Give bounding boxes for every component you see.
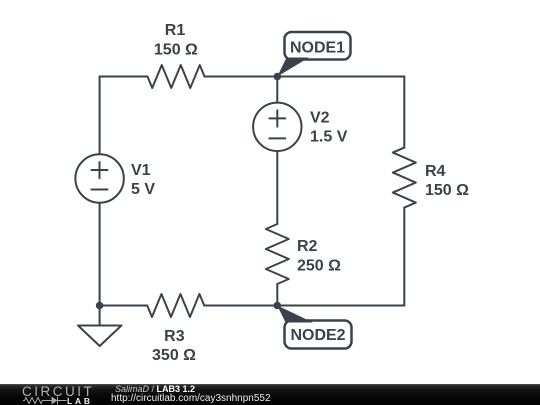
credit line author/title bbox=[115, 385, 195, 394]
svg-text:150 Ω: 150 Ω bbox=[154, 41, 198, 58]
svg-text:NODE2: NODE2 bbox=[290, 327, 345, 344]
wire right vertical top bbox=[403, 77, 405, 148]
wire left vertical bottom (V1 minus to bottom rail) bbox=[99, 204, 101, 306]
svg-text:V2: V2 bbox=[310, 109, 330, 126]
svg-text:NODE1: NODE1 bbox=[290, 39, 345, 56]
junction dot node A (top, NODE1) bbox=[274, 73, 282, 81]
resistor R1 bbox=[148, 65, 205, 88]
V1 minus sign bbox=[92, 189, 108, 191]
junction dot node B (bottom, NODE2) bbox=[274, 302, 282, 310]
wire right vertical bottom bbox=[403, 208, 405, 306]
node NODE1 flag bbox=[277, 32, 350, 77]
voltage source V2 circle bbox=[253, 103, 301, 151]
wire bottom rail right segment bbox=[204, 305, 404, 307]
ground wire stub bbox=[99, 306, 101, 326]
wire left vertical top (V1 plus to top rail) bbox=[99, 77, 101, 154]
svg-text:R2: R2 bbox=[297, 238, 318, 255]
credit line url bbox=[111, 394, 271, 404]
resistor R2 bbox=[266, 224, 289, 284]
V1 plus sign bbox=[92, 162, 108, 178]
wire V2 branch top bbox=[276, 77, 278, 103]
junction dot ground node bbox=[96, 302, 104, 310]
wire V2 to R2 bbox=[276, 151, 278, 224]
resistor R4 bbox=[393, 148, 416, 208]
CircuitLab logo text LAB bbox=[67, 397, 93, 405]
wire top rail left segment bbox=[100, 76, 148, 78]
ground symbol triangle bbox=[78, 326, 121, 347]
V2 minus sign bbox=[269, 137, 285, 139]
voltage source V1 circle bbox=[75, 154, 123, 202]
svg-text:5 V: 5 V bbox=[131, 181, 155, 198]
node NODE2 flag bbox=[277, 306, 351, 349]
svg-text:R1: R1 bbox=[165, 22, 186, 39]
svg-text:V1: V1 bbox=[131, 162, 151, 179]
svg-text:250 Ω: 250 Ω bbox=[297, 257, 341, 274]
svg-text:R4: R4 bbox=[425, 163, 446, 180]
wire top rail right segment bbox=[205, 76, 405, 78]
svg-text:150 Ω: 150 Ω bbox=[425, 182, 469, 199]
CircuitLab logo text CIRCUIT bbox=[22, 385, 94, 398]
CircuitLab logo glyph (resistor + diode) bbox=[23, 396, 68, 405]
wire bottom rail left segment bbox=[100, 305, 148, 307]
svg-text:350 Ω: 350 Ω bbox=[152, 347, 196, 364]
footer bar bbox=[0, 384, 540, 405]
svg-text:R3: R3 bbox=[164, 328, 185, 345]
resistor R3 bbox=[147, 294, 204, 317]
svg-text:1.5 V: 1.5 V bbox=[310, 129, 348, 146]
V2 plus sign bbox=[269, 110, 285, 126]
wire R2 to bottom rail bbox=[276, 284, 278, 306]
